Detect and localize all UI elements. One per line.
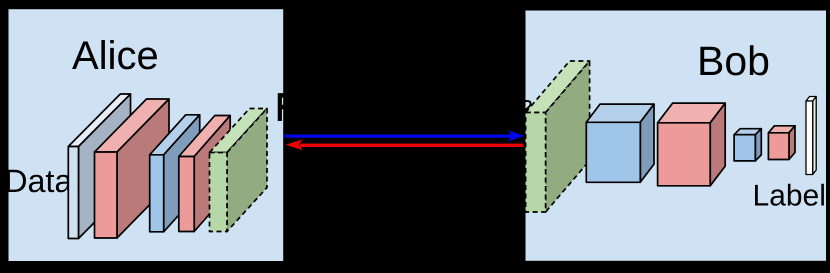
hidden text fragment F at left box edge [278,93,291,121]
pink cube layer [658,103,726,186]
right box (Bob) [525,10,828,262]
label Data [7,170,72,193]
thin white output slab [806,97,816,175]
green dashed cut layer (Alice) [210,109,268,232]
small blue cube [734,129,761,161]
Alice pooling layer slab (blue) [150,115,200,232]
label Alice [72,40,157,69]
green dashed cut layer (Bob) [526,61,590,212]
backward pass arrow (red) [286,139,524,150]
hidden text fragment 2 at right box edge [523,101,530,112]
label Label [755,184,824,206]
blue cube layer [586,104,654,182]
label Bob [700,45,768,75]
Alice conv layer slab (pink small) [179,116,230,232]
small pink cube [768,126,795,160]
Alice input layer slab (white) [68,94,130,239]
left box (Alice) [8,8,285,262]
Alice conv layer slab (pink large) [95,99,170,238]
forward pass arrow (blue) [284,130,524,141]
